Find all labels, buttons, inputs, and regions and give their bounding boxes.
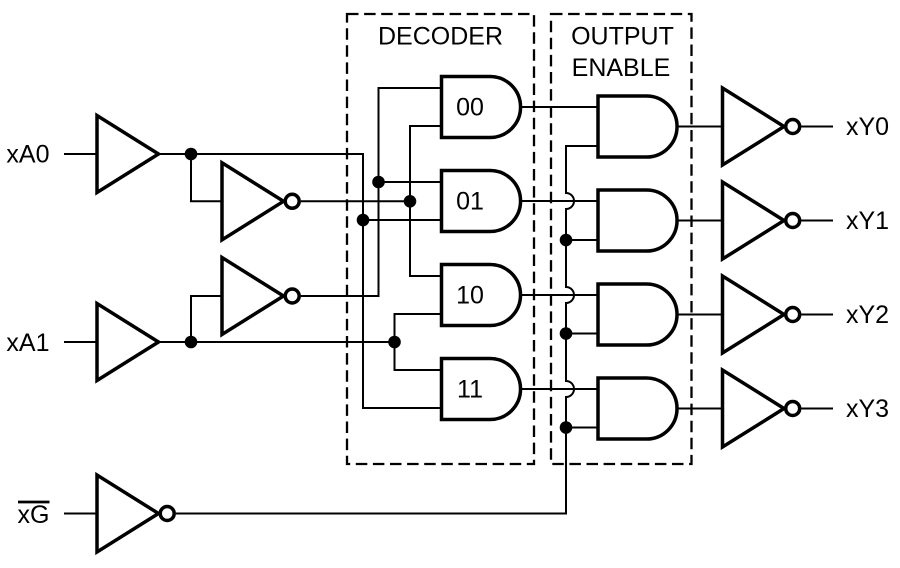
inverter U9 xG enable [97,475,159,552]
node B (A0bar) [404,195,417,208]
node enable OE3 [560,421,573,434]
buffer U1 xA0 [97,116,159,193]
wire OE0 output [677,126,723,128]
node A (A1bar to gate01) [372,176,385,189]
wire A1 vertical v4 gate10 bottom input to gate11 top input [395,314,444,370]
svg-text:xY2: xY2 [846,301,889,329]
and gate OE0 [598,96,677,157]
svg-text:OUTPUT: OUTPUT [571,23,674,51]
wire enable stub to OE2 gate [566,333,598,335]
node C (A0 to gate01) [357,214,370,227]
node enable OE2 [560,327,573,340]
wire decoder 00 output [521,106,599,108]
svg-text:xG: xG [18,501,50,529]
wire OE2 output [677,314,723,316]
wire decoder 10 output [521,294,599,296]
node A0 junction [185,148,198,161]
svg-text:ENABLE: ENABLE [572,54,671,82]
wire xY0 output [801,126,833,128]
wire xA1 input stub [64,341,97,343]
node D (A1 branch) [388,336,401,349]
inverter U5 xY0 [723,88,785,165]
svg-text:01: 01 [456,187,484,215]
svg-text:DECODER: DECODER [378,23,503,51]
and gate OE2 [598,284,677,345]
wire gate01 bottom input from node C [363,219,443,221]
inverter U4 A1bar [222,258,284,335]
wire OE1 output [677,220,723,222]
inverter U2 A0bar [222,163,284,240]
decoder dashed box [347,14,534,464]
wire A0 rail to v1 down to gate11 bottom input [159,154,444,408]
wire enable line from U9 output up with hops [176,146,598,514]
svg-text:xA1: xA1 [6,329,49,357]
wire A0bar vertical v3 gate00 bottom input to gate10 top input [410,126,443,276]
inverter U7 xY2 [723,276,785,353]
inverter U6 xY1 [723,182,785,259]
svg-text:xA0: xA0 [6,141,49,169]
and gate OE3 [598,378,677,439]
svg-text:11: 11 [457,375,483,403]
svg-text:00: 00 [456,93,484,121]
wire A0 branch down to inverter U2 input [191,154,222,201]
node enable OE1 [560,234,573,247]
wire A0bar rail from U2 output to node B [301,200,410,202]
buffer U3 xA1 [97,304,159,381]
and gate 10 [442,264,521,325]
wire gate01 top input from node A [379,181,444,183]
output enable dashed box [551,14,692,464]
svg-text:xY3: xY3 [846,395,889,423]
wire xA0 input stub [64,153,97,155]
wire xG input stub [64,513,97,515]
and gate OE1 [598,190,677,251]
svg-text:xY0: xY0 [846,113,889,141]
wire enable stub to OE1 gate [566,239,598,241]
wire xY2 output [801,314,833,316]
svg-text:10: 10 [456,281,484,309]
inverter U8 xY3 [723,370,785,447]
svg-text:xY1: xY1 [846,207,889,235]
and gate 11 [442,358,521,419]
wire A1 rail [159,341,395,343]
node A1 junction [185,336,198,349]
wire OE3 output [677,408,723,410]
wire xY1 output [801,220,833,222]
and gate 00 [442,76,521,137]
and gate 01 [442,170,521,231]
wire decoder 01 output [521,200,599,202]
wire A1 branch up to inverter U4 input [191,296,222,342]
wire xY3 output [801,408,833,410]
wire A1bar vertical v2 with gate00 top input and A1bar rail [301,88,443,296]
wire decoder 11 output [521,388,599,390]
wire enable stub to OE3 gate [566,427,598,429]
